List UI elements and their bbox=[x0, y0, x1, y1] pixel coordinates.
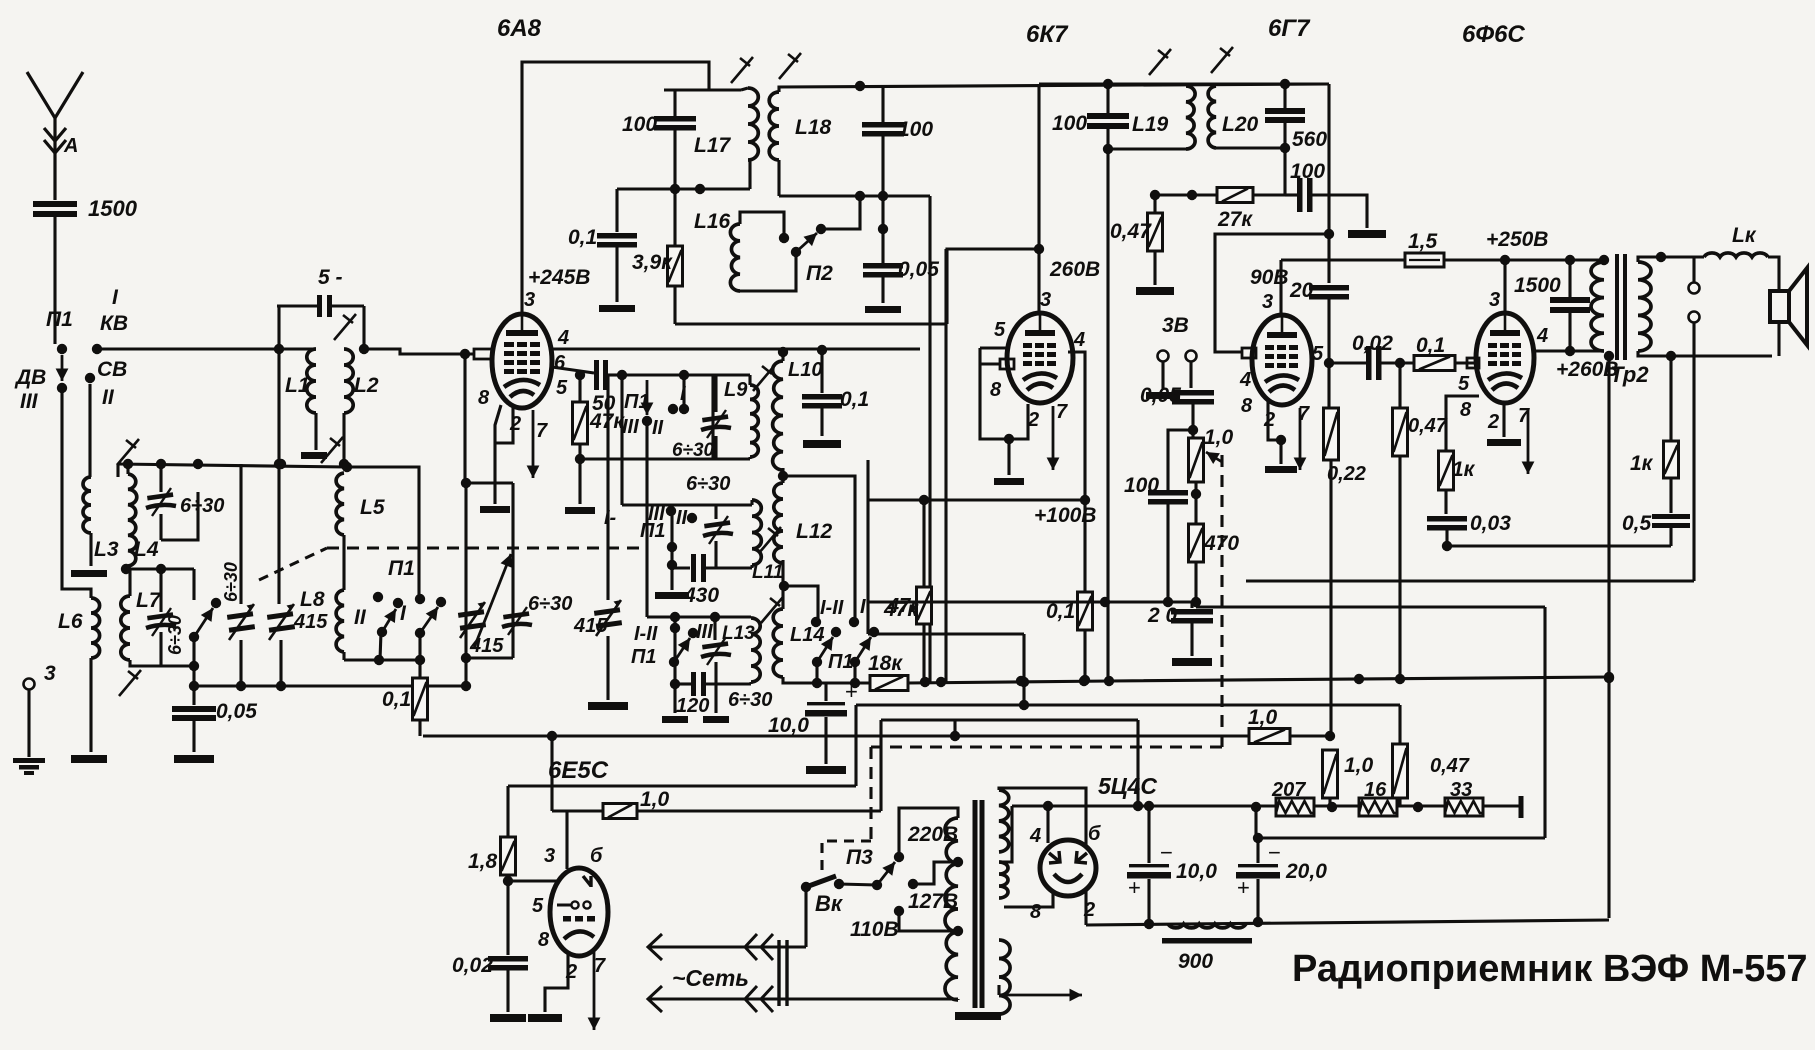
svg-text:Вк: Вк bbox=[815, 891, 844, 916]
wire bbox=[675, 682, 691, 685]
wire pin6 bbox=[552, 367, 594, 373]
ground bar bbox=[1136, 287, 1174, 295]
junction bbox=[1079, 676, 1089, 686]
svg-text:L5: L5 bbox=[360, 496, 385, 519]
wire bbox=[713, 617, 716, 640]
wire bbox=[820, 408, 823, 436]
svg-text:4: 4 bbox=[1073, 329, 1085, 351]
inductor L6 bbox=[91, 598, 100, 658]
svg-text:6Е5С: 6Е5С bbox=[548, 757, 609, 784]
wire bbox=[997, 985, 1000, 995]
plug bars bbox=[777, 940, 780, 1006]
wire bbox=[1327, 299, 1330, 363]
svg-text:7: 7 bbox=[536, 420, 548, 442]
wire pin5 bbox=[980, 346, 1010, 349]
junction bbox=[1325, 731, 1335, 741]
contact bbox=[415, 594, 425, 604]
svg-text:47к: 47к bbox=[589, 410, 625, 433]
junction bbox=[1103, 79, 1113, 89]
contact bbox=[436, 597, 446, 607]
junction bbox=[342, 462, 352, 472]
adjustable core L20 bbox=[1211, 47, 1233, 73]
cathode arrow bbox=[1294, 408, 1307, 470]
junction bbox=[670, 679, 680, 689]
contact СВ bbox=[85, 373, 95, 383]
wire bbox=[126, 566, 129, 569]
adjustable core L18 bbox=[779, 53, 801, 79]
wire bbox=[344, 658, 420, 661]
contact bbox=[668, 404, 678, 414]
wire bbox=[664, 88, 709, 91]
svg-text:0,05: 0,05 bbox=[216, 700, 257, 723]
svg-text:6÷30: 6÷30 bbox=[686, 473, 730, 495]
tube 6Г7 bbox=[1252, 315, 1312, 405]
wire bbox=[781, 349, 784, 361]
transformer Тр1 HV winding bbox=[999, 790, 1009, 852]
svg-text:−: − bbox=[1268, 840, 1281, 865]
wire bbox=[673, 617, 676, 684]
cathode arrow bbox=[527, 410, 540, 478]
capacitor 1500 antenna bbox=[33, 201, 77, 217]
svg-text:Тр2: Тр2 bbox=[1610, 362, 1649, 387]
svg-text:5: 5 bbox=[994, 319, 1006, 341]
wire bbox=[1568, 260, 1571, 297]
resistor 0,47 bbox=[1148, 213, 1163, 251]
ground bar bbox=[490, 1014, 526, 1022]
resistor 1,8 bbox=[501, 837, 516, 875]
wire bbox=[748, 457, 751, 459]
svg-text:II: II bbox=[354, 606, 367, 629]
transformer Тр2 primary bbox=[1591, 262, 1604, 351]
resistor 18к bbox=[870, 676, 908, 691]
wire bus to 6A8 grid bbox=[364, 349, 474, 354]
wire bbox=[1381, 361, 1414, 364]
wire bbox=[750, 565, 753, 568]
ground bar bbox=[1487, 439, 1521, 446]
cathode arrow bbox=[588, 950, 601, 1030]
wire bbox=[866, 460, 869, 634]
svg-text:100: 100 bbox=[898, 118, 933, 141]
wire bbox=[748, 160, 751, 189]
resistor 27к bbox=[1217, 188, 1253, 203]
capacitor 2,0 bbox=[1171, 609, 1213, 624]
wire bbox=[1669, 528, 1672, 546]
wire bbox=[1568, 311, 1571, 351]
wire osc top rail bbox=[779, 84, 1329, 92]
wire bbox=[617, 187, 750, 190]
transformer Тр1 filament winding bbox=[999, 862, 1008, 898]
svg-text:L2: L2 bbox=[354, 374, 379, 397]
junction bbox=[1103, 144, 1113, 154]
svg-text:L6: L6 bbox=[58, 610, 83, 633]
junction bbox=[575, 370, 585, 380]
wire bbox=[670, 575, 673, 590]
tube 6А8 bbox=[492, 314, 552, 408]
wire bbox=[947, 249, 1039, 324]
junction bbox=[953, 857, 963, 867]
capacitor 0,5 bbox=[1652, 514, 1690, 528]
tube 6К7 bbox=[1007, 313, 1073, 403]
wire bbox=[922, 624, 925, 682]
dashed gang link bbox=[327, 546, 648, 549]
ground bar bbox=[480, 506, 510, 513]
wire bbox=[1328, 798, 1331, 807]
junction bbox=[156, 459, 166, 469]
wire bbox=[362, 306, 365, 349]
pot wiper arrow bbox=[1206, 452, 1222, 464]
svg-text:L7: L7 bbox=[136, 589, 162, 612]
svg-text:6Ф6С: 6Ф6С bbox=[1462, 21, 1525, 48]
junction bbox=[855, 191, 865, 201]
capacitor 120 bbox=[691, 672, 706, 696]
switch П3 pole bbox=[872, 880, 882, 890]
svg-text:L3: L3 bbox=[94, 538, 119, 561]
wire bbox=[750, 500, 753, 505]
capacitor 0,05 bbox=[863, 263, 903, 278]
variable capacitor 6/30 bbox=[227, 604, 255, 640]
svg-text:L1: L1 bbox=[285, 374, 310, 397]
contact bbox=[849, 617, 859, 627]
contact bbox=[393, 598, 403, 608]
contact bbox=[211, 598, 221, 608]
wire bus B bbox=[423, 734, 1330, 737]
wire bbox=[854, 705, 857, 786]
switch pole bbox=[669, 657, 679, 667]
junction bbox=[817, 345, 827, 355]
wire pin2 bbox=[1502, 402, 1505, 437]
wire bbox=[159, 632, 162, 666]
svg-text:1,0: 1,0 bbox=[1204, 426, 1234, 449]
junction bbox=[1144, 801, 1154, 811]
svg-text:8: 8 bbox=[990, 379, 1002, 401]
svg-text:6÷30: 6÷30 bbox=[728, 689, 772, 711]
junction bbox=[778, 471, 788, 481]
wire bbox=[89, 658, 92, 752]
junction bbox=[1604, 672, 1614, 682]
svg-text:L14: L14 bbox=[790, 624, 824, 646]
wire screen bus bbox=[924, 498, 1085, 501]
wire bus C bbox=[881, 718, 1138, 721]
resistor 1,0 volume bbox=[1189, 438, 1204, 482]
chassis bar bbox=[955, 1012, 1001, 1020]
wire bbox=[1007, 439, 1010, 475]
svg-text:5Ц4С: 5Ц4С bbox=[1098, 773, 1157, 799]
junction bbox=[1019, 677, 1029, 687]
junction bbox=[1604, 673, 1614, 683]
junction bbox=[461, 681, 471, 691]
wire bbox=[1108, 147, 1186, 150]
svg-text:1,0: 1,0 bbox=[1344, 754, 1374, 777]
wire bbox=[239, 640, 242, 686]
wire bbox=[1106, 127, 1109, 149]
resistor 3,9к bbox=[668, 246, 683, 286]
wire tail down bbox=[1607, 356, 1610, 918]
wire +250 rail bbox=[1281, 258, 1405, 261]
wire terminal 3 bbox=[27, 690, 30, 757]
junction bbox=[1016, 676, 1026, 686]
wire bbox=[1046, 806, 1049, 843]
ground bar bbox=[994, 478, 1024, 485]
svg-text:+: + bbox=[1128, 875, 1141, 900]
contact bbox=[666, 506, 676, 516]
antenna A bbox=[27, 72, 83, 200]
junction bbox=[339, 459, 349, 469]
wire bbox=[1136, 720, 1139, 806]
wire bbox=[673, 684, 676, 713]
switch arm bbox=[56, 355, 69, 381]
capacitor 0,02 eye bbox=[488, 956, 528, 971]
svg-text:II: II bbox=[676, 507, 688, 529]
rail end bar bbox=[1519, 796, 1524, 818]
wire bbox=[279, 640, 282, 686]
svg-text:П1: П1 bbox=[46, 308, 73, 331]
contact КВ bbox=[92, 344, 102, 354]
wire bbox=[1444, 490, 1447, 514]
svg-text:ДВ: ДВ bbox=[14, 366, 46, 389]
svg-text:8: 8 bbox=[1030, 901, 1042, 923]
wire bbox=[1083, 630, 1086, 680]
wire bbox=[1004, 890, 1053, 907]
svg-text:10,0: 10,0 bbox=[768, 714, 809, 737]
tube 5Ц4С bbox=[1040, 840, 1096, 896]
svg-text:1500: 1500 bbox=[1514, 274, 1561, 297]
wire column III bbox=[620, 375, 623, 505]
wire bbox=[804, 887, 807, 947]
dashed link bbox=[822, 841, 871, 875]
contact bbox=[667, 542, 677, 552]
wire pin3 bbox=[565, 811, 568, 869]
svg-text:+245В: +245В bbox=[528, 266, 590, 289]
inductor L1 bbox=[307, 349, 316, 413]
capacitor 0,03 bbox=[1427, 516, 1467, 531]
wire tank3 top bbox=[647, 615, 751, 618]
mains wire top bbox=[650, 945, 806, 948]
wire bbox=[506, 786, 509, 837]
svg-text:П3: П3 bbox=[846, 846, 873, 869]
inductor Lк bbox=[1704, 253, 1768, 257]
svg-text:2: 2 bbox=[509, 413, 521, 435]
wire bbox=[239, 464, 242, 604]
transformer Тр2 secondary bbox=[1638, 262, 1651, 351]
adjustable core bbox=[759, 527, 781, 553]
wire bbox=[1327, 84, 1330, 283]
wire bbox=[580, 457, 713, 460]
wire bbox=[637, 809, 881, 812]
wire bbox=[821, 196, 860, 229]
contact П2 bbox=[816, 224, 826, 234]
capacitor 0,05 AF bbox=[1172, 390, 1214, 405]
wire bbox=[881, 136, 884, 263]
junction bbox=[1604, 351, 1614, 361]
svg-text:I: I bbox=[860, 596, 866, 618]
wire bbox=[277, 349, 280, 604]
wire bbox=[1191, 404, 1194, 438]
wire bbox=[342, 535, 345, 590]
variable capacitor 415 osc bbox=[594, 600, 622, 636]
contact bbox=[642, 416, 652, 426]
wire bbox=[466, 481, 513, 484]
wire bbox=[713, 373, 750, 376]
trimmer capacitor 6/30 bbox=[146, 608, 176, 636]
svg-text:Lк: Lк bbox=[1732, 224, 1757, 247]
svg-text:1500: 1500 bbox=[88, 196, 138, 221]
trimmer capacitor 6/30 L11 bbox=[703, 516, 733, 544]
junction bbox=[778, 347, 788, 357]
wire bbox=[159, 569, 162, 612]
wire bbox=[1192, 193, 1217, 196]
svg-text:1,5: 1,5 bbox=[1408, 230, 1438, 253]
wire bbox=[1254, 807, 1257, 838]
inductor L10 bbox=[773, 361, 783, 470]
wire bbox=[1279, 440, 1282, 464]
switch pole bbox=[812, 657, 822, 667]
capacitor 100 osc bbox=[654, 116, 696, 131]
junction bbox=[855, 81, 865, 91]
svg-text:5: 5 bbox=[556, 377, 568, 399]
svg-text:16: 16 bbox=[1364, 779, 1387, 801]
junction bbox=[1191, 489, 1201, 499]
wire anode to L17 bbox=[522, 62, 709, 303]
wire tuning rail bbox=[118, 464, 347, 467]
chassis bar bbox=[174, 755, 214, 763]
junction bbox=[710, 612, 720, 622]
resistor 1,5 bbox=[1405, 253, 1444, 267]
wire bbox=[1186, 82, 1329, 85]
svg-text:4: 4 bbox=[1239, 369, 1251, 391]
svg-text:L8: L8 bbox=[300, 588, 325, 611]
inductor L8 bbox=[336, 590, 344, 652]
wire bbox=[192, 720, 195, 752]
wire bbox=[1106, 84, 1109, 113]
wire bbox=[777, 160, 780, 196]
resistor 0,1 bbox=[413, 678, 428, 720]
adjustable core bbox=[321, 437, 343, 463]
svg-text:L4: L4 bbox=[134, 538, 159, 561]
wire bbox=[578, 459, 581, 504]
resistor 1,0 coupling bbox=[1249, 729, 1290, 744]
svg-text:L12: L12 bbox=[796, 520, 833, 543]
wire bbox=[839, 884, 877, 885]
svg-text:6÷30: 6÷30 bbox=[180, 495, 224, 517]
svg-text:A: A bbox=[63, 135, 78, 157]
svg-text:0,47: 0,47 bbox=[1430, 755, 1470, 777]
wire bbox=[126, 464, 129, 474]
wire bbox=[1189, 362, 1192, 388]
wire cathode bbox=[545, 953, 568, 1012]
svg-text:4: 4 bbox=[1536, 325, 1548, 347]
junction bbox=[617, 370, 627, 380]
variable capacitor 415 gang bbox=[458, 602, 486, 638]
wire bbox=[1184, 84, 1187, 86]
wire pin3 bbox=[1037, 249, 1040, 313]
contact bbox=[869, 627, 879, 637]
dashed link bbox=[869, 747, 872, 841]
resistor 1,0 grid bbox=[603, 804, 637, 819]
wire bbox=[944, 249, 947, 682]
svg-text:+100В: +100В bbox=[1034, 504, 1096, 527]
chassis bar bbox=[71, 755, 107, 763]
svg-text:L9: L9 bbox=[724, 379, 748, 401]
wire bbox=[464, 483, 467, 658]
svg-text:6÷30: 6÷30 bbox=[221, 562, 241, 602]
junction bbox=[670, 612, 680, 622]
contact bbox=[811, 617, 821, 627]
wire bbox=[506, 970, 509, 1012]
switch arm bbox=[382, 609, 396, 632]
contact 127 bbox=[908, 879, 918, 889]
svg-text:П1: П1 bbox=[828, 651, 854, 673]
wire bbox=[161, 492, 198, 540]
wire bbox=[342, 413, 345, 464]
speaker bbox=[1770, 291, 1789, 322]
svg-text:Радиоприемник ВЭФ М-557: Радиоприемник ВЭФ М-557 bbox=[1292, 948, 1808, 990]
junction bbox=[189, 661, 199, 671]
adjustable core bbox=[761, 597, 783, 623]
contact bbox=[670, 623, 680, 633]
junction bbox=[1191, 597, 1201, 607]
contact bbox=[688, 628, 698, 638]
junction bbox=[878, 191, 888, 201]
switch arm bbox=[817, 637, 833, 662]
wire bbox=[159, 464, 162, 492]
svg-text:III: III bbox=[696, 621, 713, 643]
svg-text:8: 8 bbox=[1460, 399, 1472, 421]
switch pole bbox=[377, 627, 387, 637]
junction bbox=[123, 459, 133, 469]
wire bbox=[192, 637, 195, 705]
wire bbox=[779, 194, 930, 197]
ground bar bbox=[806, 766, 846, 774]
mains wire bottom bbox=[650, 997, 958, 1000]
contact ДВ bbox=[57, 383, 67, 393]
wire long vertical bbox=[1106, 149, 1109, 681]
svg-text:II: II bbox=[102, 386, 115, 409]
wire grid 6Г7 bbox=[1215, 234, 1329, 352]
dashed gang link bbox=[259, 548, 327, 580]
svg-text:4: 4 bbox=[1029, 825, 1041, 847]
junction bbox=[679, 370, 689, 380]
junction bbox=[461, 653, 471, 663]
wire bus D bbox=[856, 703, 1024, 706]
svg-text:~Сеть: ~Сеть bbox=[672, 965, 749, 991]
trimmer capacitor 6/30 bbox=[502, 607, 532, 635]
terminal jack bbox=[1689, 312, 1700, 323]
wire tap to contact I bbox=[783, 476, 855, 622]
junction bbox=[936, 677, 946, 687]
junction bbox=[236, 681, 246, 691]
mains chevrons bbox=[648, 934, 662, 960]
inductor L19 bbox=[1186, 86, 1195, 149]
svg-text:0,05: 0,05 bbox=[1140, 384, 1181, 407]
inductor L4 bbox=[128, 474, 137, 566]
wire bbox=[1147, 879, 1150, 924]
wire pin4 to Tr2 bbox=[1534, 349, 1604, 352]
wire bbox=[1214, 84, 1217, 86]
junction bbox=[1187, 190, 1197, 200]
contact bbox=[831, 627, 841, 637]
svg-text:I-II: I-II bbox=[634, 623, 658, 645]
svg-text:L20: L20 bbox=[1222, 113, 1259, 136]
wire bbox=[1398, 456, 1401, 679]
junction bbox=[1565, 255, 1575, 265]
wire bus bbox=[868, 632, 1024, 635]
wire bbox=[466, 656, 513, 659]
inductor L5 bbox=[336, 473, 344, 535]
svg-text:6: 6 bbox=[554, 352, 566, 374]
inductor L11 bbox=[752, 500, 761, 565]
svg-text:L19: L19 bbox=[1132, 113, 1169, 136]
contact bbox=[687, 513, 697, 523]
